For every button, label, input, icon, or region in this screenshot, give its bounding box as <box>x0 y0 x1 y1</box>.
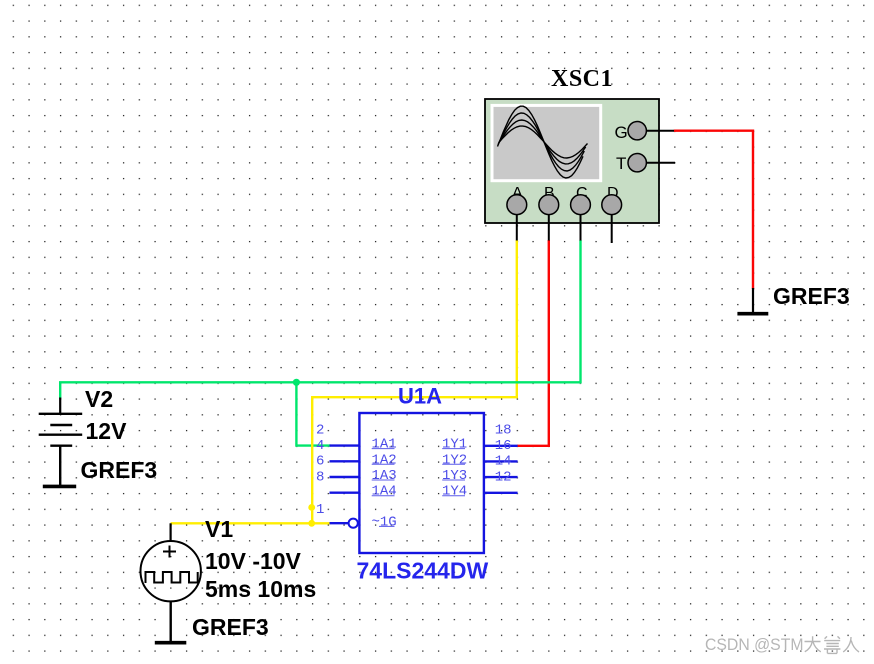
pin numbers left: 2 4 6 8 1 <box>316 422 324 518</box>
terminal B <box>539 185 559 241</box>
XSC1 label <box>551 66 613 92</box>
pin 18 stub (1Y1) <box>484 445 518 447</box>
svg-text:6: 6 <box>316 454 324 470</box>
label GREF3 (scope G net) <box>773 283 850 309</box>
svg-text:GREF3: GREF3 <box>773 283 850 309</box>
value 10V -10V <box>205 548 302 574</box>
pin name serif underlines <box>372 449 465 527</box>
ground GREF3 (V2) <box>43 446 76 487</box>
pin 6 stub (1A3) <box>330 476 360 478</box>
svg-text:GREF3: GREF3 <box>192 614 269 640</box>
wire red: scope G right and down to ground <box>674 131 753 289</box>
svg-text:16: 16 <box>495 438 512 454</box>
junction (yellow) lower <box>308 520 315 527</box>
pin 1 stub (~1G) with inversion bubble <box>330 519 358 528</box>
watermark CSDN @STM + CJK <box>705 635 859 654</box>
value 5ms 10ms <box>205 576 316 602</box>
source V1 <box>141 523 201 642</box>
svg-text:GREF3: GREF3 <box>81 457 158 483</box>
svg-text:4: 4 <box>316 438 324 454</box>
svg-text:1A2: 1A2 <box>372 452 397 468</box>
svg-text:1: 1 <box>316 502 324 518</box>
svg-text:8: 8 <box>316 469 324 485</box>
svg-text:V2: V2 <box>85 386 113 412</box>
pin 8 stub (1A4) <box>330 492 360 494</box>
terminal C <box>571 185 591 241</box>
svg-text:12: 12 <box>495 469 512 485</box>
scope waveform traces <box>498 106 588 178</box>
svg-text:2: 2 <box>316 422 324 438</box>
wire yellow: scope A down, left, down to pin 1 (~1G) net <box>312 240 517 523</box>
pin 4 stub (1A2) <box>330 460 360 462</box>
IC U1A body <box>359 413 484 553</box>
svg-text:~1G: ~1G <box>372 514 397 530</box>
svg-text:T: T <box>616 154 626 173</box>
svg-text:14: 14 <box>495 454 512 470</box>
label V2 <box>85 386 113 412</box>
battery V2 <box>39 398 82 446</box>
svg-text:74LS244DW: 74LS244DW <box>357 558 489 584</box>
value 12V <box>86 418 128 444</box>
svg-text:U1A: U1A <box>398 384 442 409</box>
terminal A <box>507 185 527 241</box>
label GREF3 (V2) <box>81 457 158 483</box>
pin numbers right: 18 16 14 12 <box>495 422 512 485</box>
svg-text:1Y1: 1Y1 <box>442 437 467 453</box>
pin names 1Y1-1Y4 <box>442 437 467 500</box>
pin 14 stub (1Y3) <box>484 476 518 478</box>
pin 2 stub (1A1) <box>330 444 360 446</box>
svg-text:1Y3: 1Y3 <box>442 468 467 484</box>
svg-text:1A1: 1A1 <box>372 437 397 453</box>
terminal G <box>615 122 675 143</box>
svg-text:CSDN @STM: CSDN @STM <box>705 635 804 654</box>
label GREF3 (V1) <box>192 614 269 640</box>
terminal T <box>616 154 675 174</box>
wire red: scope B down-left to U1A pin 16 (1Y1) <box>517 240 549 446</box>
junction (green) <box>293 379 300 386</box>
svg-text:12V: 12V <box>86 418 128 444</box>
label U1A <box>398 384 442 409</box>
terminal D <box>602 185 622 243</box>
svg-text:1A4: 1A4 <box>372 484 397 500</box>
junction (yellow) upper <box>308 504 315 511</box>
pin names 1A1-1A4, ~1G <box>372 437 397 531</box>
ground GREF3 (scope G net) <box>737 288 768 314</box>
label 74LS244DW <box>357 558 489 584</box>
pin 16 stub (1Y2) <box>484 460 518 462</box>
oscilloscope XSC1 body <box>485 99 659 223</box>
svg-text:1Y4: 1Y4 <box>442 484 467 500</box>
svg-text:G: G <box>615 123 628 142</box>
svg-text:XSC1: XSC1 <box>551 66 613 92</box>
wire green branch: junction to U1A pin 2 (1A1) <box>296 382 330 445</box>
wire green main: scope C down and left to V2 <box>60 240 580 399</box>
svg-text:18: 18 <box>495 422 512 438</box>
wire yellow: V1 plus to junction <box>171 522 313 524</box>
svg-text:V1: V1 <box>205 516 233 542</box>
pin 12 stub (1Y4) <box>484 492 518 494</box>
oscilloscope screen <box>492 105 601 180</box>
ground GREF3 (V1) <box>155 641 187 645</box>
svg-text:1A3: 1A3 <box>372 468 397 484</box>
label V1 <box>205 516 233 542</box>
svg-text:1Y2: 1Y2 <box>442 452 467 468</box>
svg-text:5ms 10ms: 5ms 10ms <box>205 576 316 602</box>
svg-text:10V -10V: 10V -10V <box>205 548 302 574</box>
